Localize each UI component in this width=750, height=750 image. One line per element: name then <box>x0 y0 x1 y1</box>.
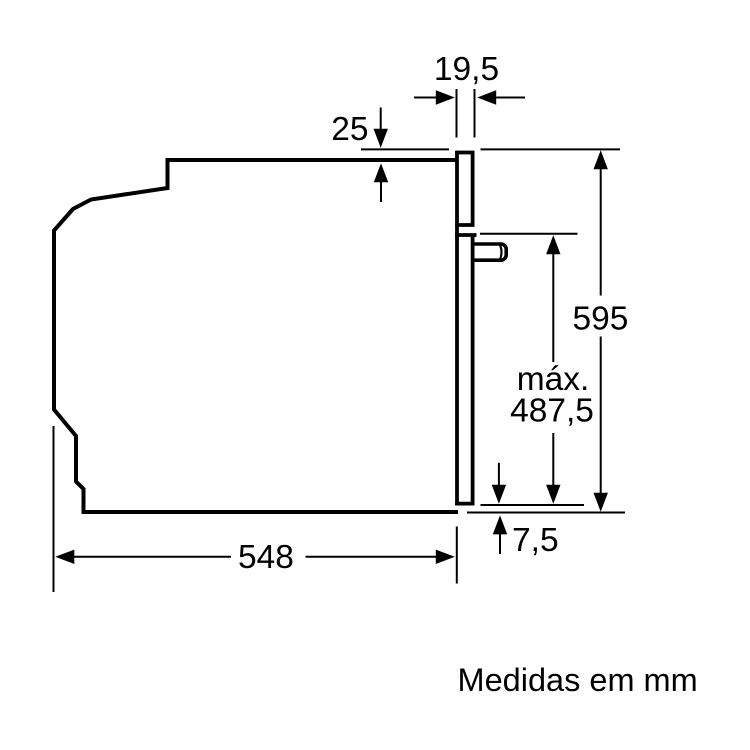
dimension 548 : line right segment with right arrow <box>306 556 438 558</box>
door handle <box>473 244 506 260</box>
svg-text:7,5: 7,5 <box>512 522 559 559</box>
dimension 595 : vertical line upper segment <box>600 167 602 296</box>
svg-text:548: 548 <box>238 539 294 576</box>
svg-text:19,5: 19,5 <box>434 51 499 88</box>
top reference line left segment (door-top level) <box>361 148 449 150</box>
dimension 25 : up arrow <box>380 178 382 202</box>
dimension 595 : vertical line lower segment <box>600 337 602 497</box>
dimension max 487,5 : top arrow <box>546 235 560 254</box>
dimension 548 : line left segment with left arrow <box>72 556 231 558</box>
dimension 548 : left extension line <box>53 426 55 592</box>
handle-level reference line <box>480 233 578 235</box>
dimension 7,5 : upper down arrow <box>498 463 500 488</box>
dimension 548 : right extension line <box>456 527 458 584</box>
svg-text:25: 25 <box>331 111 368 148</box>
dimension 19,5 : right arrow <box>495 97 525 99</box>
top reference line right segment (door-top level) <box>481 148 621 150</box>
dimension 25 : down arrow <box>380 108 382 133</box>
door panel <box>455 235 476 504</box>
dimension 19,5 : right extension line <box>474 89 476 138</box>
dimension max 487,5 : vertical line lower segment <box>552 433 554 487</box>
oven-bottom-level reference line <box>467 512 625 514</box>
svg-text:595: 595 <box>573 301 629 338</box>
svg-text:Medidas em mm: Medidas em mm <box>458 662 698 698</box>
dimension max 487,5 : bottom arrow <box>546 485 560 504</box>
dimension 19,5 : left extension line <box>456 89 458 138</box>
control panel (front top) <box>455 153 472 226</box>
door-bottom-level reference line <box>481 504 585 506</box>
door front continuous left edge <box>455 151 459 506</box>
oven body outline <box>54 160 458 512</box>
dimension max 487,5 : vertical line upper segment <box>552 252 554 362</box>
dimension 595 : bottom arrow <box>594 493 608 512</box>
svg-text:487,5: 487,5 <box>510 393 594 430</box>
dimension 7,5 : lower up arrow <box>499 530 501 554</box>
dimension 595 : top arrow <box>594 150 608 169</box>
handle end cap arc <box>500 245 501 259</box>
dimension 19,5 : left arrow <box>414 97 437 99</box>
